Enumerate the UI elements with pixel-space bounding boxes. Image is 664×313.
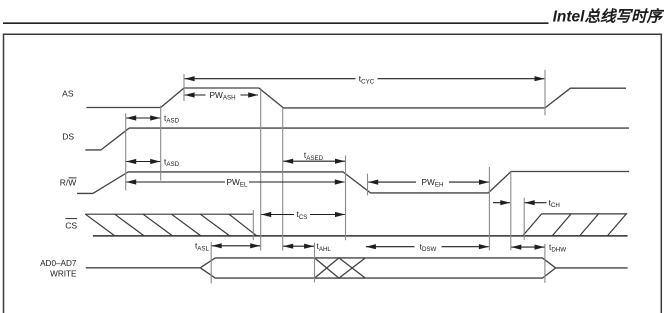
svg-text:PWASH: PWASH [209, 90, 235, 102]
tick at x=125.7 (tASD origin) [125, 113, 127, 190]
tick at x=260.7 (AS fall start, long) [260, 88, 262, 251]
svg-text:CS: CS [65, 221, 77, 231]
svg-text:PWEL: PWEL [227, 177, 249, 189]
CS hatch band 1 top edge [85, 213, 253, 215]
svg-text:DS: DS [62, 132, 74, 142]
waveform DS [85, 128, 629, 150]
svg-text:WRITE: WRITE [50, 269, 77, 278]
tick at x=211.2 (bus open / tASL left) [210, 242, 212, 283]
bus invalid crossing XX [315, 258, 366, 278]
svg-text:tASD: tASD [164, 156, 180, 168]
arrow PW_EH [368, 177, 489, 189]
arrow tCS [261, 209, 345, 221]
svg-text:tDHW: tDHW [549, 242, 566, 254]
title underline rule [3, 22, 549, 24]
tick at x=345.5 (tASED right / R/W fall) [345, 156, 347, 241]
tick at x=160.7 (AS rise start) [160, 106, 162, 181]
signal label CS with overline [65, 219, 77, 231]
svg-text:tASD: tASD [164, 113, 180, 125]
bus AD0-AD7 waveform [86, 258, 628, 278]
waveform AS [86, 88, 626, 108]
arrow PW_ASH [185, 90, 259, 102]
svg-text:tCH: tCH [549, 197, 560, 209]
CS hatch band 2 left edge and diagonals [523, 214, 627, 236]
arrow tASL [195, 241, 260, 253]
arrow PW_EL [126, 177, 345, 189]
tick at x=544.9 (tDHW right / bus close) [544, 244, 546, 283]
svg-text:tCYC: tCYC [359, 74, 375, 86]
svg-text:AD0–AD7: AD0–AD7 [40, 259, 77, 268]
arrow tASD lower [126, 156, 179, 168]
tick at x=489.4 (R/W rise start) [488, 167, 490, 250]
arrow tDHW [511, 242, 566, 254]
signal label AD0-AD7 WRITE [40, 259, 77, 279]
svg-text:tASL: tASL [195, 241, 210, 253]
svg-text:PWEH: PWEH [422, 177, 444, 189]
arrow tASED [283, 150, 345, 164]
svg-text:tAHL: tAHL [317, 241, 332, 253]
svg-text:R/W: R/W [60, 178, 77, 188]
tick at x=184 (AS rise top) [183, 74, 185, 101]
small unlabeled arrow before R/W rise top [493, 200, 510, 205]
tick at x=524.2 (tCH left) [523, 198, 525, 240]
waveform CS low line [93, 235, 628, 237]
CS hatch band 2 top edge [542, 213, 628, 215]
svg-text:tASED: tASED [304, 150, 324, 162]
svg-text:tDSW: tDSW [420, 241, 437, 253]
svg-text:AS: AS [62, 88, 74, 98]
tick at x=314.5 (bus X left) [314, 242, 316, 282]
signal label R/W with overline on W [60, 178, 77, 188]
arrow tCH [525, 197, 560, 209]
tick at x=282.7 (AS fall end, long) [282, 108, 284, 251]
tick at x=367.5 (R/W fall end) [367, 174, 369, 196]
arrow tDSW [366, 241, 489, 253]
svg-text:tCS: tCS [297, 209, 308, 221]
svg-text:Intel总线写时序: Intel总线写时序 [553, 7, 664, 25]
waveform R/W [77, 172, 629, 194]
arrow tAHL [283, 241, 331, 253]
CS hatch band 1 diagonals [85, 214, 256, 236]
arrow tASD upper [126, 113, 179, 125]
tick at x=545 (tCYC end / AS rise 2) [544, 70, 546, 116]
tick at x=253.3 (CS fall) [252, 210, 254, 240]
arrow tCYC [185, 74, 545, 86]
tick at x=510.8 (R/W rise top) [510, 171, 512, 250]
